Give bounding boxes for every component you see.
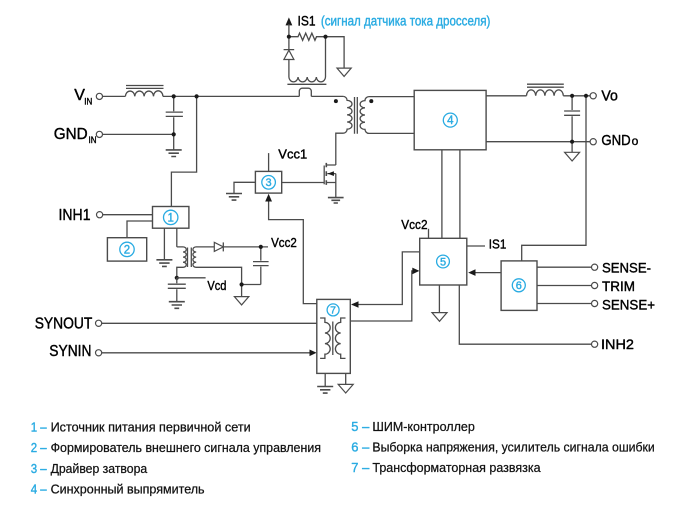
core T1 — [355, 97, 358, 134]
svg-text:Формирователь внешнего сигнала: Формирователь внешнего сигнала управлени… — [51, 440, 321, 455]
svg-text:Синхронный выпрямитель: Синхронный выпрямитель — [51, 481, 205, 496]
arrow into box3 — [265, 194, 272, 202]
svg-text:4 –: 4 – — [31, 481, 48, 496]
arrow into box7 — [351, 301, 359, 308]
ground chassis output — [571, 142, 573, 153]
transformer T3 left winding — [320, 318, 330, 358]
node junction VIN-box1 — [195, 94, 199, 98]
transformer T1 primary — [336, 96, 352, 165]
inductor L2 output — [527, 90, 564, 96]
ground chassis box7 — [338, 384, 353, 393]
block U1 primary source — [153, 207, 189, 229]
diode D1 — [284, 37, 295, 77]
svg-text:2 –: 2 – — [31, 440, 48, 455]
wire gate — [282, 182, 325, 184]
arrow IS1 output up — [286, 17, 293, 25]
svg-text:SENSE-: SENSE- — [602, 259, 651, 275]
wire SENSE+ — [537, 303, 592, 305]
ground earth C2 — [169, 302, 185, 309]
BOX3 DRIVER — [226, 146, 317, 303]
terminal SYNIN — [96, 350, 102, 356]
transformer T2 right winding — [193, 247, 242, 297]
wire box5 to box7 — [352, 252, 419, 305]
svg-text:o: o — [632, 134, 639, 148]
wire drive from box7 to box3 — [269, 201, 317, 304]
IS1 SENSE CIRCUIT — [284, 14, 491, 85]
arrow into box5 — [412, 268, 419, 275]
wire box2 to box1 — [127, 221, 153, 238]
wire INH1 — [103, 214, 153, 216]
svg-text:6: 6 — [516, 280, 522, 292]
transformer T3 right winding — [335, 318, 345, 358]
svg-text:Vcc2: Vcc2 — [271, 235, 297, 250]
svg-text:INH1: INH1 — [59, 207, 91, 224]
wire Vcd stub — [177, 277, 206, 279]
winding sense coil — [289, 77, 326, 82]
svg-text:1: 1 — [167, 212, 173, 224]
svg-text:IN: IN — [89, 135, 97, 145]
ground earth box7 — [317, 387, 333, 394]
arrow into box5 right — [468, 269, 475, 276]
terminal SENSE- — [592, 264, 598, 270]
transformer T2 left winding — [177, 247, 187, 278]
svg-text:4: 4 — [447, 115, 454, 127]
TERMINALS LEFT — [35, 87, 103, 360]
block U6 error amp — [501, 261, 537, 311]
terminal Vo — [590, 93, 596, 99]
terminal GNDin — [96, 131, 102, 137]
svg-text:SYNIN: SYNIN — [49, 343, 91, 360]
wire Vcc2 stub box5 — [428, 229, 430, 239]
svg-text:IN: IN — [84, 97, 92, 107]
MOSFET Q1 — [282, 163, 344, 203]
dot phase primary — [334, 99, 338, 103]
svg-text:Драйвер затвора: Драйвер затвора — [51, 461, 148, 476]
block U2 control shaper — [107, 238, 146, 261]
terminal SENSE+ — [592, 300, 598, 306]
svg-text:ШИМ-контроллер: ШИМ-контроллер — [372, 419, 474, 434]
TERMINALS RIGHT — [590, 89, 655, 353]
wire GNDo rail — [486, 141, 590, 143]
VCC2 GENERATION — [168, 235, 297, 308]
svg-text:3: 3 — [266, 177, 272, 189]
node GNDo-C4 — [570, 140, 574, 144]
svg-text:INH2: INH2 — [601, 336, 634, 352]
diode D2 — [214, 242, 223, 251]
wire R1 to ground — [326, 37, 345, 68]
TRANSFORMER T1 — [334, 96, 414, 165]
core T3 — [332, 322, 334, 356]
wire box4 to box5 left — [441, 150, 443, 239]
wire SYNIN — [102, 352, 311, 354]
wire box3 left to ground — [234, 182, 255, 193]
terminal VIN — [96, 93, 102, 99]
node T2 bottom left — [175, 276, 179, 280]
node junction GNDin-C1 — [172, 132, 176, 136]
ground earth Q1 source — [328, 198, 344, 203]
node R1 right — [323, 35, 327, 39]
svg-text:IS1: IS1 — [489, 237, 507, 252]
ground earth box1 — [156, 260, 172, 267]
svg-text:SYNOUT: SYNOUT — [35, 315, 93, 332]
svg-text:Vcc2: Vcc2 — [401, 217, 427, 232]
svg-text:5 –: 5 – — [351, 419, 370, 434]
wire SYNOUT — [102, 322, 317, 324]
BOX7 ISOLATION — [102, 299, 353, 393]
wire IS1 stub box5 — [467, 245, 485, 247]
terminal INH1 — [97, 212, 103, 218]
ground earth input — [166, 150, 182, 157]
svg-text:1 –: 1 – — [31, 420, 48, 435]
ground chassis Vcc2 — [234, 297, 248, 305]
wire C3 to ground — [242, 284, 261, 286]
transistor Q1 — [323, 166, 325, 185]
block U3 gate driver — [255, 171, 281, 193]
core of L1 — [126, 86, 164, 89]
svg-text:GND: GND — [601, 133, 630, 149]
core sense coil — [287, 83, 326, 85]
svg-text:Источник питания первичной сет: Источник питания первичной сети — [51, 420, 251, 435]
wire TRIM — [537, 285, 592, 287]
WIRES-INPUT — [103, 86, 343, 207]
inductor L1 input choke — [125, 91, 162, 97]
node Vo-feedback — [584, 94, 588, 98]
wire box4 to box5 right — [459, 150, 461, 239]
wire box1 to ground — [163, 228, 165, 260]
svg-text:GND: GND — [54, 126, 88, 143]
arrow SYNIN into box7 — [310, 350, 317, 357]
node R1 left — [287, 35, 291, 39]
svg-text:3 –: 3 – — [31, 461, 48, 476]
block U4 sync rectifier — [414, 90, 486, 149]
BOX6 SENSE — [468, 261, 592, 311]
ground earth box3 — [226, 194, 242, 201]
svg-text:5: 5 — [440, 256, 446, 268]
BOX5 PWM — [350, 217, 592, 344]
svg-text:6 –: 6 – — [351, 439, 370, 454]
terminal GNDo — [590, 139, 596, 145]
core L2 — [527, 84, 564, 87]
wire box7 to box5 — [350, 271, 418, 321]
wire Vcc1 — [268, 153, 270, 171]
svg-text:SENSE+: SENSE+ — [602, 296, 655, 312]
svg-text:TRIM: TRIM — [602, 278, 635, 294]
node Vcc2 — [259, 245, 263, 249]
wire box7 right ground — [345, 373, 347, 384]
node Vo-C4 — [570, 94, 574, 98]
block U5 PWM controller — [420, 238, 467, 285]
resistor R1 — [289, 33, 326, 40]
wire box5 ground — [438, 285, 440, 313]
svg-text:7: 7 — [330, 305, 336, 317]
OUTPUT — [486, 84, 590, 261]
ground chassis box5 — [432, 313, 447, 322]
svg-text:(сигнал датчика тока дросселя): (сигнал датчика тока дросселя) — [321, 14, 491, 29]
wire feedback Vo to box6 — [522, 96, 586, 261]
node junction VIN-C1 — [172, 94, 176, 98]
core T2 — [188, 248, 192, 268]
terminal SYNOUT — [96, 320, 102, 326]
wire GNDin — [103, 133, 174, 135]
transformer T1 secondary — [360, 97, 414, 134]
terminal TRIM — [592, 282, 598, 288]
wire box7 left ground — [324, 373, 326, 386]
capacitor C4 output — [564, 96, 580, 142]
ground chassis IS1 — [337, 68, 351, 76]
BOX4 RECTIFIER — [414, 90, 486, 238]
svg-text:Vcd: Vcd — [207, 278, 226, 293]
wire VIN rail — [103, 95, 343, 97]
svg-text:7 –: 7 – — [351, 460, 370, 475]
svg-text:Vcc1: Vcc1 — [278, 146, 307, 161]
node C3 ground — [240, 282, 244, 286]
LEGEND — [31, 419, 655, 497]
svg-text:Выборка напряжения, усилитель: Выборка напряжения, усилитель сигнала ош… — [372, 439, 654, 454]
svg-text:Vo: Vo — [601, 89, 618, 105]
wire coil right leg — [325, 37, 327, 77]
PRIMARY SOURCE AREA — [103, 207, 189, 267]
wire hump choke jump — [299, 88, 311, 96]
wire INH2 to box5 — [459, 285, 592, 344]
wire box1 to T2 — [176, 228, 178, 247]
wire box6 to box5 arrow — [473, 272, 501, 274]
svg-text:IS1: IS1 — [298, 14, 316, 29]
wire VIN to box1 — [171, 96, 196, 206]
svg-text:Трансформаторная развязка: Трансформаторная развязка — [372, 460, 541, 475]
wire D2 to Vcc2 node — [223, 246, 268, 248]
block U7 isolation transformer — [317, 299, 351, 373]
capacitor C2 — [168, 278, 186, 302]
capacitor C3 — [253, 247, 269, 285]
capacitor C1 input — [166, 96, 183, 149]
dot phase secondary — [369, 99, 373, 103]
terminal INH2 — [592, 341, 598, 347]
wire SENSE- — [537, 266, 592, 268]
wire Vo rail — [486, 95, 590, 97]
svg-text:2: 2 — [124, 244, 130, 256]
